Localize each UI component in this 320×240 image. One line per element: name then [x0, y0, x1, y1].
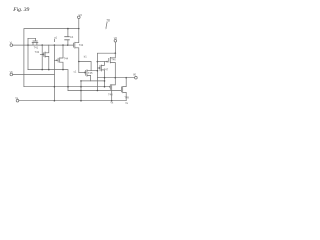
node dot T44 gate riser on W1	[54, 44, 56, 46]
node dot rail/T44 riser	[54, 86, 56, 88]
capacitor C bottom lead	[67, 40, 69, 45]
gate circle T43	[43, 54, 44, 55]
power terminal VDD	[114, 40, 117, 43]
T47 gate stub	[97, 67, 99, 69]
wire T44 gate riser	[53, 45, 55, 101]
node dot rail/T45 source drop	[80, 86, 82, 88]
svg-text:Vs: Vs	[125, 102, 129, 105]
input terminal IN2	[10, 73, 13, 76]
node dot gnd/T44 riser	[54, 100, 56, 102]
wire T43 gate riser	[41, 45, 43, 70]
T45 gate stub	[79, 72, 85, 74]
capacitor C top lead	[67, 29, 69, 37]
node dot capacitor top rail	[67, 28, 69, 30]
node dot output/T49 drain	[125, 77, 127, 79]
VDD rail and left drop	[97, 53, 115, 90]
node dot VDD drop / T46 gate line	[97, 61, 99, 63]
wire T41 gate riser to tail rail	[27, 38, 29, 69]
node tick a1	[54, 39, 56, 41]
wire T42 drain node line	[79, 62, 98, 71]
svg-text:Vb: Vb	[10, 70, 14, 74]
svg-text:T49: T49	[124, 96, 129, 100]
node dot output/T46 drain	[115, 77, 117, 79]
gate circle T45	[84, 72, 85, 73]
node dot T44 drain on W1	[62, 44, 64, 46]
transistor T45	[86, 70, 91, 81]
feedback rail to T48 gate	[24, 86, 109, 88]
leader arrowhead 78	[105, 27, 106, 29]
svg-text:C4: C4	[70, 35, 74, 39]
svg-text:T41: T41	[34, 46, 39, 50]
node dot capacitor bottom on W1	[67, 44, 69, 46]
node dot VDD1 / top rail corner	[78, 28, 79, 29]
svg-text:80: 80	[133, 72, 136, 76]
transistor T47	[100, 62, 105, 87]
input terminal IN1	[10, 44, 13, 47]
node dot VDD rail	[115, 52, 117, 54]
svg-text:T47: T47	[104, 67, 109, 71]
node dot T45 source line left	[80, 80, 82, 82]
ground terminal	[16, 99, 19, 102]
svg-text:T48: T48	[108, 93, 113, 97]
node dot R1/T43 source	[48, 69, 50, 71]
transistor T48	[110, 78, 115, 101]
capacitor C plates	[65, 37, 70, 40]
node dot T47 riser / T45 source line	[104, 80, 106, 82]
wire input2	[13, 74, 55, 76]
transistor T43	[44, 45, 49, 70]
wire VDD lead	[114, 42, 116, 53]
node dot R2/T45 source drop	[80, 90, 82, 92]
node dot rail/T47 riser end	[104, 86, 106, 88]
node dot R1/T44 source	[62, 69, 64, 71]
node dot rail/R1 connector	[67, 86, 69, 88]
svg-text:Fig. 39: Fig. 39	[12, 7, 29, 13]
svg-text:c1: c1	[74, 70, 77, 74]
output terminal OUT	[135, 76, 138, 79]
wire W1 input node	[13, 44, 74, 46]
transistor T44	[58, 45, 63, 70]
svg-text:T45: T45	[88, 71, 93, 75]
ground rail	[19, 100, 126, 102]
rail R2 to T49 gate	[68, 90, 121, 92]
svg-text:78: 78	[106, 18, 110, 22]
node dot output/T47 riser	[104, 77, 106, 79]
transistor T42	[73, 29, 78, 62]
svg-text:Vd: Vd	[114, 36, 118, 40]
node dot T43 gate riser on W1	[41, 44, 43, 46]
gate circle T44	[56, 60, 57, 61]
tail rail R1	[28, 70, 68, 91]
svg-text:T46: T46	[111, 57, 116, 61]
node dot R1/T43 gate riser end	[41, 69, 43, 71]
svg-text:b1: b1	[84, 55, 87, 59]
output line	[97, 77, 134, 79]
gate circle T48	[109, 86, 110, 87]
wire VDD1 lead	[78, 19, 80, 29]
T43 gate stub	[40, 53, 43, 55]
T45 source line	[81, 80, 105, 82]
transistor T41	[28, 38, 38, 45]
wire T42 drain to T45 gate	[78, 62, 80, 73]
node dot R2/VDD drop end	[97, 90, 99, 92]
transistor T46	[109, 53, 116, 77]
svg-text:Vd: Vd	[79, 13, 83, 17]
svg-text:T42: T42	[79, 43, 84, 47]
svg-text:T43: T43	[35, 50, 40, 54]
feedback rail left vertical and top rail	[24, 29, 79, 87]
node dot T41 gate riser on W1	[27, 44, 29, 46]
svg-text:T44: T44	[64, 56, 69, 60]
gate circle T47	[99, 68, 100, 69]
leader line 78	[106, 22, 107, 28]
T46 gate line	[97, 61, 106, 63]
node dot gnd/T48 source	[111, 100, 113, 102]
transistor T49	[121, 78, 126, 101]
node dot gnd/T45 source	[80, 100, 82, 102]
power terminal VDD1 (top)	[78, 16, 81, 19]
svg-text:Vs: Vs	[110, 102, 114, 105]
T44 gate stub	[54, 59, 56, 61]
node dot VDD drop / T45 drain line	[97, 70, 99, 72]
node dot T42 drain branch	[78, 61, 80, 63]
gate circle T46	[107, 61, 108, 62]
wire T45 source to ground	[80, 81, 82, 101]
